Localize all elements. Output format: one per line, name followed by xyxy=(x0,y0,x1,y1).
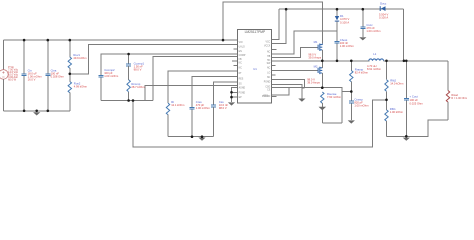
svg-text:4.99 kOhm: 4.99 kOhm xyxy=(74,84,88,88)
capacitor Ccomp2 xyxy=(99,75,104,77)
svg-text:1.00 mOhm: 1.00 mOhm xyxy=(340,44,355,48)
svg-text:HO: HO xyxy=(267,60,271,62)
wire Ccomp2 bottom xyxy=(100,78,102,101)
resistor Rfb2 xyxy=(385,80,388,92)
wire Cina column xyxy=(47,40,49,111)
svg-text:1.00 kOhm: 1.00 kOhm xyxy=(390,110,404,114)
svg-text:1.00 mOhm: 1.00 mOhm xyxy=(366,29,381,33)
svg-text:14.0 kOhm: 14.0 kOhm xyxy=(390,82,404,86)
svg-text:HB: HB xyxy=(267,56,271,58)
ground output xyxy=(403,138,410,141)
wire Cin column xyxy=(23,40,25,111)
wire M1 source to SW xyxy=(321,50,323,61)
wire COMP xyxy=(101,54,237,75)
wire Ruv mid xyxy=(69,68,71,74)
svg-text:0.100 A: 0.100 A xyxy=(379,16,388,20)
wire Rfb2 bottom xyxy=(386,91,388,100)
wire HB xyxy=(272,31,338,54)
svg-text:98.0 V: 98.0 V xyxy=(219,106,227,110)
ground power xyxy=(298,99,305,102)
svg-text:COMP: COMP xyxy=(239,55,246,57)
svg-text:LM25117PMP: LM25117PMP xyxy=(245,30,266,34)
svg-text:60.0 W: 60.0 W xyxy=(8,79,17,82)
resistor Rload xyxy=(446,91,449,103)
svg-text:NC: NC xyxy=(267,77,271,79)
voltage source V1 xyxy=(0,70,8,80)
wire VCC riser xyxy=(272,9,279,39)
wire D1 bottom xyxy=(336,22,338,41)
resistor Rcomp xyxy=(127,80,130,92)
resistor Ruv1 xyxy=(68,57,71,68)
pin labels U1 left xyxy=(239,42,246,99)
svg-text:UVLO: UVLO xyxy=(239,46,245,48)
wire RES xyxy=(192,77,237,108)
wire Rsense bottom xyxy=(321,103,323,123)
resistor Rt xyxy=(166,103,169,115)
wire Rramp bottom xyxy=(350,82,352,101)
ground AGND xyxy=(228,102,235,105)
transistor M1 xyxy=(318,44,322,51)
svg-text:R = 1.00 Ohm: R = 1.00 Ohm xyxy=(451,97,467,100)
svg-text:SS: SS xyxy=(239,84,243,86)
inductor L1 xyxy=(369,59,384,61)
wire Ruv1 top xyxy=(69,40,71,57)
wire VCCX riser xyxy=(272,9,287,43)
wire Rfb2 top xyxy=(386,61,388,80)
wire RT xyxy=(168,71,237,103)
capacitor Cres xyxy=(190,107,195,109)
svg-text:RES: RES xyxy=(239,78,244,80)
svg-text:VCCX: VCCX xyxy=(264,46,271,48)
wire HO gate xyxy=(272,48,319,58)
capacitor Cin xyxy=(22,74,27,76)
svg-text:39.0 Amps: 39.0 Amps xyxy=(308,56,321,60)
svg-text:NC: NC xyxy=(239,63,243,65)
svg-text:49.9 kOhm: 49.9 kOhm xyxy=(73,56,87,60)
wire Rfb1 bottom xyxy=(386,121,388,136)
wire V1 top xyxy=(3,40,5,70)
wire Ccomp1 bottom xyxy=(128,66,130,80)
svg-text:LO: LO xyxy=(267,72,270,74)
wire Rt bottom xyxy=(167,115,169,137)
svg-text:28.7 kOhm: 28.7 kOhm xyxy=(131,85,145,89)
capacitor Cina xyxy=(45,74,50,76)
svg-text:M1: M1 xyxy=(314,40,318,44)
wire Cres bottom xyxy=(191,109,193,136)
capacitor Cramp xyxy=(349,101,354,103)
transistor M2 xyxy=(318,67,322,74)
wire Rload top xyxy=(447,61,449,91)
wire LO gate xyxy=(272,69,319,71)
svg-text:FB: FB xyxy=(239,59,242,61)
wire Rload bottom xyxy=(447,102,449,120)
svg-text:VIN: VIN xyxy=(239,42,243,44)
wire Cboot bottom xyxy=(336,43,338,60)
svg-text:1.00 mOhm: 1.00 mOhm xyxy=(104,74,119,78)
wire Cvcc top xyxy=(362,9,364,26)
diode D1 xyxy=(335,16,339,22)
wire CS sense link xyxy=(322,88,351,123)
svg-text:EN: EN xyxy=(239,51,243,53)
svg-text:VCC: VCC xyxy=(266,41,271,43)
wire SW bus xyxy=(272,60,370,62)
wire input rail xyxy=(4,39,238,41)
resistor Rramp xyxy=(350,71,353,82)
resistor Ruv2 xyxy=(68,82,71,93)
wire Ruv2 ends xyxy=(69,74,71,111)
capacitor Cboot xyxy=(335,41,340,43)
svg-text:U1: U1 xyxy=(253,67,257,71)
svg-text:AGND: AGND xyxy=(239,87,246,90)
svg-text:12.1 kOhm: 12.1 kOhm xyxy=(171,103,185,107)
wire Cramp bottom xyxy=(350,103,352,120)
wire FB loop bottom xyxy=(133,100,387,147)
wire FB riser xyxy=(153,56,238,100)
op-amp U1 LM25117PMP xyxy=(237,30,271,103)
wire timing ground bus xyxy=(168,136,214,138)
wire Rcomp bottom xyxy=(128,92,130,101)
svg-text:NC: NC xyxy=(239,67,243,69)
wire VIN to M1 drain xyxy=(223,2,322,44)
wire M2 drain/source xyxy=(321,61,323,88)
ground input xyxy=(33,112,40,115)
svg-text:8.91 mOhm: 8.91 mOhm xyxy=(367,67,382,71)
svg-text:39.0 Amps: 39.0 Amps xyxy=(307,81,320,85)
wire V1 bottom xyxy=(3,79,5,111)
svg-text:Dvcc: Dvcc xyxy=(380,2,387,6)
wire CS xyxy=(272,87,323,89)
svg-text:0.100 A: 0.100 A xyxy=(340,21,349,25)
ground timing xyxy=(198,138,205,141)
wire RES right xyxy=(272,88,290,95)
wire AGND xyxy=(232,87,238,102)
svg-text:0.028 Ohm: 0.028 Ohm xyxy=(51,74,65,78)
svg-text:NC: NC xyxy=(267,51,271,53)
wire right stubs xyxy=(272,66,277,97)
wire VCC bus top xyxy=(279,8,404,10)
wire Cout top xyxy=(405,61,407,98)
wire Ccomp1 top xyxy=(128,54,130,64)
svg-text:CS: CS xyxy=(267,90,271,92)
diode Dvcc xyxy=(380,6,386,11)
resistor Rsense xyxy=(321,92,324,103)
wire UVLO xyxy=(70,45,238,74)
wire output ground bus xyxy=(387,120,449,136)
capacitor Cvcc xyxy=(360,27,365,29)
svg-text:M2: M2 xyxy=(314,64,318,68)
svg-text:98.0 V: 98.0 V xyxy=(134,67,142,71)
wire Cvcc bottom xyxy=(362,29,364,37)
pin labels U1 right xyxy=(262,41,271,98)
svg-text:CSG: CSG xyxy=(265,87,270,89)
svg-text:7.60 mOhm: 7.60 mOhm xyxy=(327,95,342,99)
wire Vout rail xyxy=(384,60,448,62)
ground Rsense xyxy=(319,107,327,110)
wire Css bottom xyxy=(213,107,215,137)
svg-text:1.00 mOhm: 1.00 mOhm xyxy=(196,106,211,110)
ground Cramp xyxy=(348,120,355,123)
resistor Rfb1 xyxy=(385,110,388,121)
svg-text:NC: NC xyxy=(267,68,271,70)
wire PGND xyxy=(272,79,305,88)
wire Rramp top xyxy=(350,61,352,71)
wire D1 top xyxy=(336,9,338,16)
wire comp bus xyxy=(101,100,153,102)
svg-text:PGND: PGND xyxy=(264,81,271,83)
svg-text:1.00 mOhm: 1.00 mOhm xyxy=(354,104,369,108)
wire right stub NC xyxy=(272,48,277,50)
svg-text:EP: EP xyxy=(239,97,243,99)
wire CSG xyxy=(272,85,302,99)
ground Cvcc xyxy=(359,37,366,40)
svg-text:L1: L1 xyxy=(373,52,377,56)
capacitor Ccomp1 xyxy=(126,64,131,66)
wire ground bus left xyxy=(4,110,70,112)
wire VCC bus drop xyxy=(402,9,404,61)
svg-text:0.025 Ohm: 0.025 Ohm xyxy=(410,101,424,105)
svg-text:PGND: PGND xyxy=(239,93,246,95)
svg-text:PGOOD: PGOOD xyxy=(262,96,271,98)
wire SS xyxy=(214,82,238,105)
wire Rfb1 top xyxy=(386,100,388,110)
wire left stubs xyxy=(232,49,237,65)
wire Cout bottom xyxy=(405,100,407,136)
wire DEMB riser xyxy=(145,86,237,101)
capacitor Css xyxy=(211,105,216,107)
svg-text:16.0 V: 16.0 V xyxy=(28,77,36,81)
capacitor Cout xyxy=(404,98,409,100)
